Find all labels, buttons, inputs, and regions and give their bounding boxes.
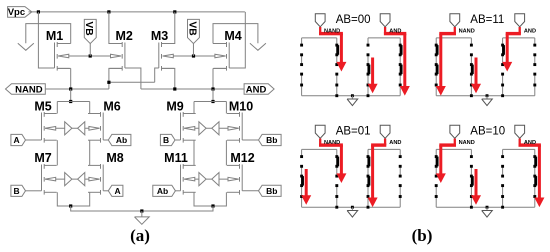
transistor M3 [151,29,174,70]
wire M1 drain loop [26,24,71,44]
arrow M2 bulk [111,54,122,58]
ground symbol [135,211,150,224]
svg-text:(a): (a) [130,226,150,245]
node AB=10 bottom joints [470,206,504,209]
wire cell2 bulk [184,127,239,129]
wire M2 gate to AND [125,68,141,89]
branch AB=11 AND right [533,38,536,96]
red current path AB=01 A [368,139,386,207]
svg-text:AB=10: AB=10 [470,126,505,138]
svg-text:AND: AND [246,84,267,95]
wire M2 drain to Vpc [109,12,122,44]
svg-text:AB=01: AB=01 [336,126,371,138]
wire M10-M12 [225,140,227,165]
arrow M7 bulk [45,177,56,181]
label AB=10 AND [524,140,536,146]
red current path AB=11 A [503,27,521,70]
node AND-M4 [211,87,214,90]
arrow left phase symbol [18,43,34,50]
arrow right phase symbol [250,43,266,50]
wire cell2 top [194,102,226,114]
caption (b) [412,226,433,245]
svg-text:VB: VB [186,21,197,35]
node Vpc-M3drain junction [173,10,176,13]
Vpc flag AB=00 AND [380,14,390,27]
input tag B M9 [160,134,180,145]
wire M4 source to AND [213,68,227,89]
diode triangle left row3 cell2 [212,173,219,186]
label AB=11 NAND [459,28,475,34]
svg-text:M10: M10 [229,99,253,113]
node AND-M3src [173,87,176,90]
node VB1 [89,54,92,57]
wire cell1 bulk row3 [45,178,100,180]
Vpc flag AB=11 NAND [450,14,460,27]
svg-text:B: B [14,186,20,196]
svg-text:AND: AND [389,28,401,34]
svg-text:A: A [115,186,121,196]
svg-text:B: B [163,135,169,145]
svg-text:Ab: Ab [116,135,127,145]
svg-text:M2: M2 [116,29,133,43]
svg-text:A: A [14,135,20,145]
node cell2 top [211,100,214,103]
branch AB=01 NAND left [300,149,304,207]
svg-text:Ab: Ab [157,186,168,196]
svg-text:M7: M7 [34,151,51,165]
node AB=00 bottom joints [335,94,369,97]
Vpc power-clock tag [8,7,32,18]
node Vpc-M2drain junction [107,10,110,13]
wire M3 drain to Vpc [162,12,175,44]
label AB=00 AND [389,28,401,34]
arrow M9 bulk [184,127,195,131]
red current path AB=01 N [319,139,346,182]
diode triangle right cell2 [199,122,206,135]
wire AB=11 frame [436,38,535,96]
wire AB=00 frame [302,38,401,96]
label AB=00 [336,14,371,26]
red current arrow AB=10 [472,169,480,204]
wire M1 bulk to VB [58,55,90,57]
AND output tag [244,84,274,96]
Vpc flag AB=11 AND [515,14,525,27]
diode triangle right row3 cell1 [65,173,72,186]
wire M4 gate to rail end [229,12,245,68]
wire cell2 bottom [194,192,226,206]
input tag Bb M12 [242,185,281,196]
ground AB=11 [482,96,493,106]
arrow M4 bulk [215,54,226,58]
wire M3 bulk to VB [163,55,194,57]
wire M9-M11 [193,140,195,165]
svg-text:M1: M1 [46,29,63,43]
transistor M9 [166,99,195,142]
svg-text:M9: M9 [166,99,183,113]
label AB=11 [470,14,504,26]
wire cell1 bottom [57,192,89,206]
svg-text:Vpc: Vpc [8,7,25,18]
branch AB=10 NAND left [435,149,439,207]
node cell1 top [69,100,72,103]
svg-text:AND: AND [389,140,401,146]
branch AB=11 NAND right [470,38,474,96]
label AB=01 NAND [324,140,340,146]
wire M5-M7 [56,140,58,165]
branch AB=00 AND right [399,38,403,96]
red current path AB=11 N [437,27,456,95]
wire M6-M8 [89,140,91,165]
Vpc flag AB=01 AND [380,125,390,138]
red current arrow AB=00 [368,58,376,93]
wire VB to M2 bulk [90,55,121,57]
arrow M8 bulk [89,177,100,181]
Vpc flag AB=00 NAND [315,14,325,27]
ground AB=00 [347,96,358,106]
svg-text:M12: M12 [230,151,254,165]
svg-text:VB: VB [83,21,94,35]
label AB=10 [470,126,505,138]
node Vpc-M1gate junction [37,10,40,13]
svg-text:NAND: NAND [459,140,475,146]
VB tag right [186,19,199,56]
diode triangle left cell2 [212,122,219,135]
red current arrow AB=11 [472,58,480,93]
node cell1 bottom [69,204,72,207]
caption (a) [130,226,150,245]
wire AB=01 frame [302,149,401,207]
label AB=01 AND [389,140,401,146]
svg-text:NAND: NAND [324,28,340,34]
wire M4 drain loop [213,24,258,44]
branch AB=10 AND right [533,149,537,207]
wire M3 source down [162,68,175,89]
input tag Bb M10 [242,134,281,145]
label AB=00 NAND [324,28,340,34]
branch AB=11 NAND left [435,38,439,96]
label AB=10 NAND [459,140,475,146]
label AB=01 [336,126,371,138]
diode triangle left cell1 [78,122,85,135]
svg-text:M3: M3 [151,29,168,43]
svg-text:M5: M5 [34,99,51,113]
node AB=11 bottom joints [470,94,504,97]
red current path AB=00 N [319,27,346,70]
diode triangle right cell1 [65,122,72,135]
branch AB=01 AND right [399,149,402,207]
transistor M6 [88,99,121,142]
input tag B M7 [11,185,42,196]
input tag A M8 [103,185,123,196]
svg-text:AND: AND [524,140,536,146]
svg-text:(b): (b) [412,226,433,245]
transistor M5 [34,99,56,142]
node VB2 [192,54,195,57]
wire AND to cell2 [212,89,214,102]
arrow M6 bulk [89,127,100,131]
transistor M10 [227,99,253,142]
wire M1 source to NAND [57,68,70,89]
svg-text:AB=00: AB=00 [336,14,371,26]
input tag Ab M6 [103,134,131,145]
node NAND-M1 [69,87,72,90]
ground AB=01 [347,207,358,217]
input tag Ab M11 [153,185,181,196]
wire VB to M4 bulk [194,55,226,57]
wire Vpc rail [29,11,245,13]
node cell2 bottom [211,204,214,207]
branch AB=10 NAND right [470,149,474,207]
Vpc flag AB=10 AND [515,125,525,138]
svg-text:M4: M4 [224,29,241,43]
Vpc flag AB=01 NAND [315,125,325,138]
VB tag left [83,19,96,56]
wire cell1 bulk [45,127,100,129]
svg-text:M6: M6 [103,99,120,113]
red current arrow AB=01 [302,169,310,204]
svg-text:NAND: NAND [15,84,43,95]
svg-text:AB=11: AB=11 [470,14,504,26]
branch AB=00 NAND right [335,38,339,96]
node ground [140,209,143,212]
diode triangle right row3 cell2 [199,173,206,186]
node NAND-M2src [107,81,110,84]
branch AB=00 NAND left [300,38,303,96]
Vpc flag AB=10 NAND [450,125,460,138]
wire M1 gate to Vpc [38,12,54,68]
branch AB=01 AND left [367,149,371,207]
red current path AB=10 A [519,139,544,207]
transistor M4 [214,29,242,70]
transistor M1 [46,29,70,70]
arrow M10 bulk [228,127,239,131]
wire cell2 bulk row3 [184,178,239,180]
svg-text:Bb: Bb [266,135,277,145]
red current path AB=10 N [437,139,456,182]
arrow M12 bulk [228,177,239,181]
transistor M12 [227,151,255,195]
arrow M3 bulk [163,54,174,58]
transistor M8 [88,151,124,195]
arrow M5 bulk [45,127,56,131]
svg-text:M11: M11 [164,151,188,165]
node AB=01 bottom joints [335,206,369,209]
NAND output tag [6,84,46,96]
arrow M11 bulk [184,177,195,181]
wire cell1 top [57,102,89,114]
ground AB=10 [482,207,493,217]
wire NAND to cell1 [70,89,72,102]
svg-text:NAND: NAND [459,28,475,34]
svg-text:M8: M8 [106,151,123,165]
branch AB=11 AND left [501,38,505,96]
diode triangle left row3 cell1 [78,173,85,186]
svg-text:NAND: NAND [324,140,340,146]
wire M2 source down [109,68,122,82]
label AB=11 AND [524,28,536,34]
branch AB=00 AND left [367,38,371,96]
wire ground rail [71,206,213,211]
wire M3 gate to NAND [155,68,159,82]
branch AB=01 NAND right [335,149,339,207]
input tag A M5 [11,134,42,145]
wire AB=10 frame [436,149,535,207]
wire NAND net [45,82,154,89]
svg-text:Bb: Bb [266,186,277,196]
wire AND net [141,88,244,90]
arrow M1 bulk [58,54,69,58]
red current path AB=00 A [384,27,409,95]
transistor M7 [34,151,56,195]
transistor M2 [110,29,133,70]
branch AB=10 AND left [501,149,504,207]
transistor M11 [164,151,196,195]
svg-text:AND: AND [524,28,536,34]
